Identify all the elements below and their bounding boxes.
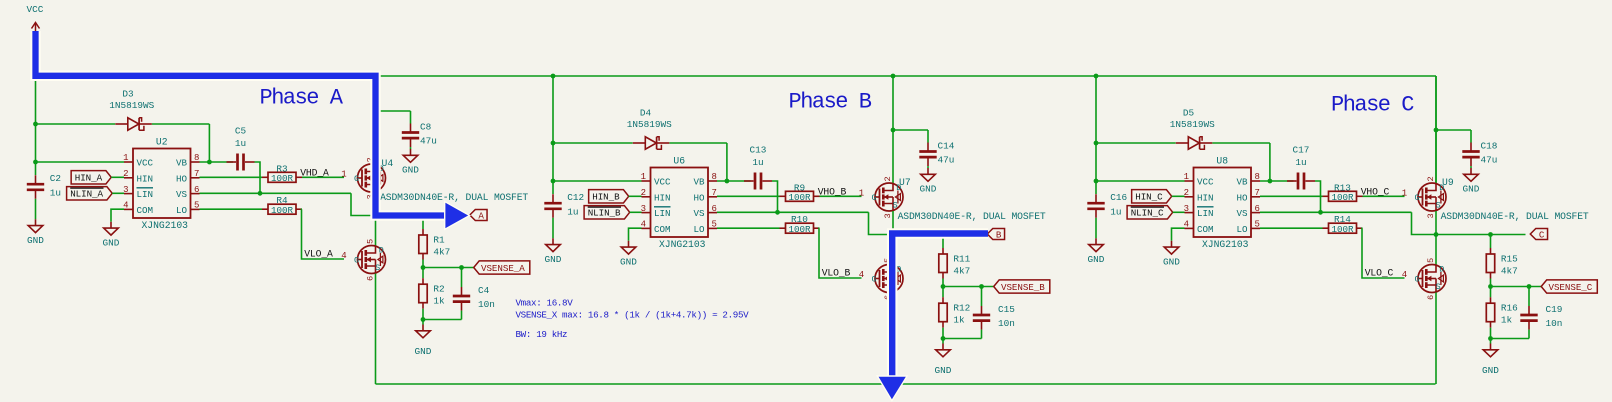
svg-text:BW: 19 kHz: BW: 19 kHz [516,329,568,340]
global label VSENSE_A [474,261,530,274]
wire VB row phase B [717,180,751,182]
svg-text:1u: 1u [567,206,578,217]
svg-text:100R: 100R [271,205,294,216]
svg-text:47u: 47u [420,136,437,147]
wire output to R15 [1490,235,1492,249]
wire C16 to GND [1095,218,1097,239]
junction bottom row phase C [1488,336,1493,341]
global label B [987,229,1004,240]
svg-text:VCC: VCC [1197,177,1214,188]
svg-text:8: 8 [194,153,199,163]
wire HO to R13 [1260,195,1323,197]
wire VS row phase B [717,211,869,213]
junction drain column at rail [891,74,896,79]
capacitor C14 47u [927,130,929,143]
gate driver U8 XJNG2103 [1194,168,1252,238]
svg-text:1k: 1k [1501,315,1513,326]
svg-text:3: 3 [883,213,893,218]
wire VCC drop phase B [552,76,554,194]
svg-text:1N5819WS: 1N5819WS [627,119,672,130]
capacitor C13 1u [744,180,754,182]
svg-text:LO: LO [693,224,705,235]
svg-text:1u: 1u [1295,157,1306,168]
svg-text:Phase C: Phase C [1331,92,1414,117]
wire output node to lower drain phase B [892,235,894,265]
wire drain column phase C [1435,76,1437,184]
junction VB node phase C [1268,179,1273,184]
resistor R14 100R [1323,227,1329,229]
wire bottom row phase C [1491,338,1530,340]
svg-text:VLO_B: VLO_B [822,267,851,278]
svg-text:COM: COM [654,224,671,235]
svg-text:C18: C18 [1481,141,1498,152]
wire R15 to junction [1490,279,1492,287]
svg-text:NLIN_B: NLIN_B [588,208,621,219]
svg-text:C13: C13 [750,145,767,156]
svg-text:8: 8 [1255,172,1260,182]
svg-text:7: 7 [1255,188,1260,198]
junction diode row phase C [1094,141,1099,146]
mosfet U4A (upper) ASDM30DN40E-R [358,164,386,192]
junction drain/C14 node [891,128,896,133]
junction VSENSE row phase B [941,284,946,289]
svg-text:A: A [478,210,484,221]
svg-text:3: 3 [1426,213,1436,218]
svg-text:GND: GND [1482,365,1499,376]
capacitor C16 1u [1095,194,1097,202]
diode D3 1N5819WS [128,118,139,130]
svg-text:VSENSE_A: VSENSE_A [481,263,525,274]
wire output node to flag phase B [893,234,983,236]
svg-text:1: 1 [1184,172,1189,182]
wire R14 to lower gate [1362,228,1405,278]
wire HO to R3 [200,176,263,178]
resistor R2 1k [422,268,424,279]
svg-text:C15: C15 [998,304,1015,315]
svg-text:U9: U9 [1442,177,1454,188]
wire output to R1 [422,216,424,230]
svg-text:HIN: HIN [137,173,154,184]
junction VCC rail x1096 [1094,74,1099,79]
svg-text:GND: GND [1463,184,1480,195]
mosfet U7B (lower) ASDM30DN40E-R [875,265,903,293]
svg-text:U6: U6 [673,156,685,167]
diode D5 1N5819WS [1188,137,1199,149]
svg-text:10n: 10n [998,318,1015,329]
svg-text:U8: U8 [1216,156,1228,167]
wire output to R11 [942,235,944,249]
svg-text:U2: U2 [156,137,168,148]
svg-text:C12: C12 [567,192,584,203]
svg-text:R16: R16 [1501,303,1518,314]
junction VS row phase B [775,210,780,215]
resistor R4 100R [262,208,268,210]
wire VCC pin row phase B [553,180,642,182]
wire drain column phase A [375,76,377,165]
svg-text:G: G [354,255,359,265]
svg-text:GND: GND [620,256,637,267]
wire HIN_A to pin 2 [111,176,124,178]
wire to C8 [376,110,411,112]
capacitor C19 10n [1528,287,1530,307]
junction VB node phase B [725,179,730,184]
svg-text:1k: 1k [433,296,445,307]
svg-text:GND: GND [935,365,952,376]
svg-text:100R: 100R [271,173,294,184]
resistor R1 4k7 [422,229,424,235]
svg-text:7: 7 [712,188,717,198]
wire upper source to output node phase C [1435,211,1437,235]
svg-text:4k7: 4k7 [1501,266,1518,277]
svg-text:C: C [1539,229,1545,240]
svg-text:6: 6 [365,276,375,281]
global label HIN_C [1132,190,1172,203]
svg-text:1: 1 [859,188,864,198]
junction VB node phase A [207,160,212,165]
junction output node phase C [1434,232,1439,237]
svg-text:4: 4 [641,220,646,230]
junction C4 top [459,265,464,270]
svg-text:C8: C8 [420,122,432,133]
wire COM to GND phase A [111,209,124,222]
svg-text:COM: COM [1197,224,1214,235]
svg-text:47u: 47u [938,155,955,166]
wire R1 to junction [422,260,424,268]
svg-text:1k: 1k [953,315,965,326]
wire drain column phase B [892,76,894,184]
svg-text:100R: 100R [1331,224,1354,235]
annotation blue path phase B output to bottom [892,234,988,378]
svg-text:Vmax: 16.8V: Vmax: 16.8V [516,298,574,309]
resistor R10 100R [780,227,786,229]
svg-text:HIN_A: HIN_A [75,173,103,184]
svg-text:VS: VS [1236,208,1248,219]
svg-text:C2: C2 [50,173,61,184]
wire VCC top rail [36,75,1437,77]
wire C13 to VS column [772,181,778,212]
global label A [470,210,487,221]
wire HIN_C to pin 2 [1172,195,1185,197]
capacitor C15 10n [981,287,983,307]
svg-text:LO: LO [176,205,188,216]
wire R2 to bottom junction [422,309,424,320]
svg-text:VCC: VCC [137,158,154,169]
svg-text:3: 3 [123,185,128,195]
wire VCC pin row phase A [36,161,125,163]
svg-text:GND: GND [1163,256,1180,267]
svg-text:2: 2 [123,169,128,179]
svg-text:B: B [996,229,1002,240]
svg-text:C19: C19 [1546,304,1563,315]
wire upper source to output node phase B [892,211,894,235]
svg-text:VLO_A: VLO_A [304,248,333,259]
svg-text:S: S [1436,282,1441,292]
wire LO to R10 [717,227,780,229]
svg-text:4k7: 4k7 [953,266,970,277]
wire lower source to bottom rail phase A [375,274,377,385]
junction drain/C8 node [373,109,378,114]
svg-text:1u: 1u [1110,206,1121,217]
global label NLIN_C (overline) [1127,206,1173,219]
svg-text:4: 4 [1184,220,1189,230]
global label NLIN_A (overline) [67,187,113,200]
wire to C14 [893,129,928,131]
svg-text:C4: C4 [478,285,490,296]
svg-text:1: 1 [123,153,128,163]
wire VS row phase C [1260,211,1412,213]
wire HO to R9 [717,195,780,197]
capacitor C12 1u [552,194,554,202]
wire R16 to bottom junction [1490,328,1492,339]
mosfet U7A (upper) ASDM30DN40E-R [875,183,903,211]
resistor R16 1k [1490,287,1492,298]
svg-text:VB: VB [1236,177,1248,188]
wire lower source to bottom rail phase B [892,293,894,385]
wire R3 to upper gate [302,176,344,178]
wire LO to R4 [200,208,263,210]
gate driver U6 XJNG2103 [651,168,709,238]
gate driver U2 XJNG2103 [133,149,191,219]
svg-text:GND: GND [920,184,937,195]
annotation blue path VCC to phase A output [36,31,445,216]
mosfet U9B (lower) ASDM30DN40E-R [1418,265,1446,293]
svg-text:1: 1 [341,169,346,179]
svg-text:4k7: 4k7 [433,247,450,258]
svg-text:VS: VS [176,189,188,200]
svg-text:GND: GND [402,165,419,176]
svg-text:6: 6 [194,185,199,195]
svg-text:GND: GND [415,346,432,357]
svg-text:10n: 10n [1546,318,1563,329]
wire HIN_B to pin 2 [629,195,642,197]
svg-text:1: 1 [641,172,646,182]
wire C14 to GND [927,166,929,168]
svg-text:VCC: VCC [27,4,44,15]
junction VCC pin row phase C [1094,179,1099,184]
wire R12 to bottom junction [942,328,944,339]
diode D4 1N5819WS [645,137,656,149]
junction C15 top [979,284,984,289]
svg-text:G: G [354,174,359,184]
svg-text:R11: R11 [953,253,970,264]
wire R11 to junction [942,279,944,287]
svg-text:S: S [375,263,380,273]
wire diode cathode drop phase A [208,124,210,162]
annotation arrowhead down [877,376,907,401]
svg-text:VHO_C: VHO_C [1361,186,1390,197]
svg-text:GND: GND [545,254,562,265]
svg-text:LIN: LIN [137,189,154,200]
svg-text:100R: 100R [788,224,811,235]
svg-text:R2: R2 [433,284,444,295]
wire VS to output node phase C [1412,212,1437,234]
wire output node to flag phase C [1436,234,1526,236]
svg-text:VCC: VCC [654,177,671,188]
junction diode row phase A [33,122,38,127]
svg-text:Phase A: Phase A [260,86,344,111]
svg-text:8: 8 [712,172,717,182]
wire C17 to VS column [1315,181,1321,212]
svg-text:XJNG2103: XJNG2103 [141,220,188,231]
svg-text:HIN_C: HIN_C [1135,192,1163,203]
svg-text:D: D [379,246,384,256]
ground at COM phase A [110,222,112,228]
wire NLIN_B to pin 3 [630,211,642,213]
svg-text:NLIN_C: NLIN_C [1131,208,1164,219]
capacitor C17 1u [1287,180,1297,182]
junction diode row phase B [551,141,556,146]
svg-text:2: 2 [1426,176,1436,181]
capacitor C5 1u [227,161,237,163]
junction output node phase A [373,213,378,218]
svg-text:5: 5 [365,239,375,244]
global label NLIN_B (overline) [584,206,630,219]
wire output node to lower drain phase A [375,216,377,246]
svg-text:ASDM30DN40E-R, DUAL MOSFET: ASDM30DN40E-R, DUAL MOSFET [380,192,528,203]
svg-text:100R: 100R [1331,192,1354,203]
wire to C18 [1436,129,1471,131]
capacitor C2 1u [35,175,37,183]
svg-text:VHD_A: VHD_A [300,167,329,178]
svg-text:R12: R12 [953,303,970,314]
junction VCC pin row phase A [33,160,38,165]
svg-text:VLO_C: VLO_C [1365,267,1394,278]
ground below C14 [927,168,929,174]
junction VS row phase A [258,191,263,196]
svg-text:S: S [1436,201,1441,211]
svg-text:D3: D3 [122,89,134,100]
svg-text:4: 4 [123,201,128,211]
svg-text:S: S [893,201,898,211]
wire VCC rail drop phase C [1435,76,1437,184]
wire VSENSE row phase B [943,286,994,288]
junction VSENSE row phase A [421,265,426,270]
global label HIN_A [71,171,111,184]
wire lower source to bottom rail phase C [1435,293,1437,385]
svg-text:C14: C14 [938,141,955,152]
svg-text:C5: C5 [235,126,247,137]
svg-text:4: 4 [341,251,346,261]
junction output node phase B [891,232,896,237]
svg-text:XJNG2103: XJNG2103 [1202,239,1249,250]
wire diode row phase A [36,123,116,125]
wire VS to output node phase B [869,212,894,234]
svg-text:1: 1 [1402,188,1407,198]
ground below C16 [1095,238,1097,244]
wire C2 to GND [35,199,37,220]
svg-text:G: G [1414,193,1419,203]
svg-text:4: 4 [859,270,864,280]
junction divider top [421,213,426,218]
mosfet U9A (upper) ASDM30DN40E-R [1418,183,1446,211]
junction divider top [941,232,946,237]
svg-text:U4: U4 [382,158,394,169]
global label VSENSE_B [994,280,1050,293]
svg-text:LIN: LIN [654,208,671,219]
svg-text:XJNG2103: XJNG2103 [659,239,706,250]
svg-text:5: 5 [712,220,717,230]
wire C18 to GND [1470,166,1472,168]
wire VCC pin row phase C [1096,180,1185,182]
junction bottom row phase B [941,336,946,341]
wire upper source to output node phase A [375,192,377,216]
ground below C8 [410,149,412,155]
wire R4 to lower gate [302,209,345,259]
svg-text:D: D [1439,265,1444,275]
svg-text:Phase B: Phase B [789,89,872,114]
wire diode cathode drop phase B [726,143,728,181]
svg-text:ASDM30DN40E-R, DUAL MOSFET: ASDM30DN40E-R, DUAL MOSFET [1441,211,1589,222]
svg-text:1u: 1u [752,157,763,168]
svg-text:6: 6 [1426,295,1436,300]
global label VSENSE_C [1541,280,1597,293]
wire R10 to lower gate [819,228,862,278]
svg-text:C16: C16 [1110,192,1127,203]
svg-text:VHO_B: VHO_B [818,186,847,197]
svg-text:1u: 1u [235,138,246,149]
wire COM to GND phase C [1172,228,1185,241]
capacitor C8 47u [410,111,412,124]
svg-text:G: G [871,193,876,203]
wire C8 to GND [410,147,412,149]
junction bottom row phase A [421,317,426,322]
resistor R9 100R [780,195,786,197]
wire diode cathode drop phase C [1269,143,1271,181]
ground below C18 [1470,168,1472,174]
svg-text:GND: GND [27,235,44,246]
wire VS row phase A [200,192,352,194]
svg-text:G: G [871,274,876,284]
ground at COM phase B [628,241,630,247]
svg-text:R1: R1 [433,234,445,245]
ground below R16 [1490,339,1492,344]
svg-text:C17: C17 [1293,145,1310,156]
svg-text:ASDM30DN40E-R, DUAL MOSFET: ASDM30DN40E-R, DUAL MOSFET [898,211,1046,222]
svg-text:NLIN_A: NLIN_A [70,189,103,200]
annotation arrowhead right at A [445,202,470,230]
svg-text:VSENSE_X max: 16.8 * (1k / (1k: VSENSE_X max: 16.8 * (1k / (1k+4.7k)) ≈ … [516,309,750,320]
svg-text:HO: HO [693,192,705,203]
global label C [1530,229,1547,240]
svg-text:D4: D4 [640,108,652,119]
svg-text:4: 4 [1402,270,1407,280]
svg-text:5: 5 [1255,220,1260,230]
wire diode row phase B [553,142,633,144]
wire bottom row phase A [423,319,462,321]
junction divider top [1488,232,1493,237]
junction VS row phase C [1318,210,1323,215]
ground below C12 [552,238,554,244]
svg-text:GND: GND [1088,254,1105,265]
wire COM to GND phase B [629,228,642,241]
ground below C2 [35,219,37,225]
resistor R15 4k7 [1490,248,1492,254]
svg-text:GND: GND [103,237,120,248]
junction VSENSE row phase C [1488,284,1493,289]
svg-text:G: G [1414,274,1419,284]
junction VCC rail x553 [551,74,556,79]
svg-text:HIN_B: HIN_B [592,192,620,203]
svg-text:VB: VB [176,158,188,169]
svg-text:3: 3 [641,204,646,214]
wire C5 to VS column [255,162,261,193]
wire R9 to upper gate [820,195,862,197]
svg-text:VSENSE_B: VSENSE_B [1001,282,1045,293]
svg-text:2: 2 [641,188,646,198]
wire output node to flag phase A [376,215,466,217]
svg-text:2: 2 [883,176,893,181]
svg-text:LIN: LIN [1197,208,1214,219]
